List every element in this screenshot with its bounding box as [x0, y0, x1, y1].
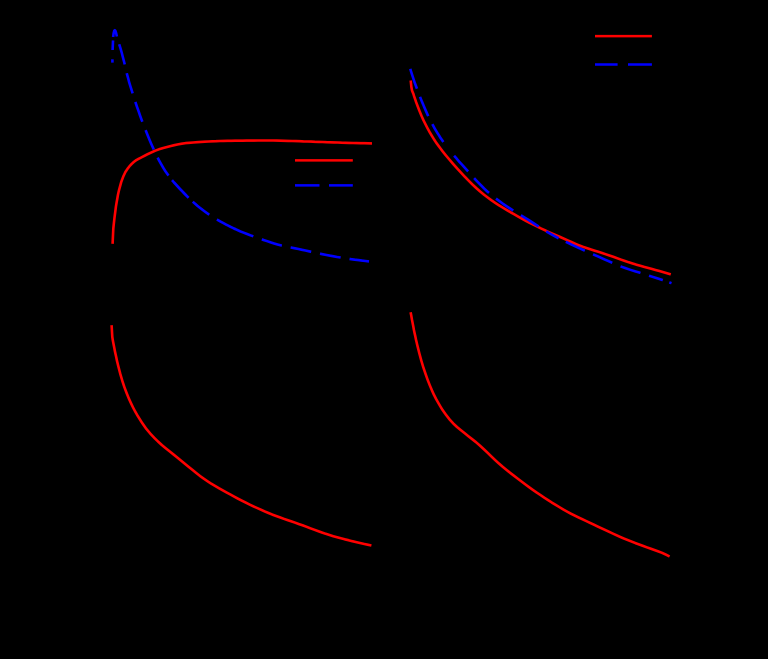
top-left subplot: blue dashed curve (descending branch, part 1) [119, 44, 188, 198]
top-left legend: red solid sample line [295, 159, 353, 162]
top-left blue curve: spike apex arc [113, 30, 117, 37]
top-left subplot: blue dashed curve (part 2) [172, 180, 236, 229]
top-left subplot: red solid curve [113, 141, 372, 244]
top-right subplot: red solid curve [411, 81, 671, 275]
top-right subplot: blue dashed curve (part 1) [410, 69, 420, 97]
bottom-left subplot: red solid curve [112, 325, 372, 545]
top-left blue curve: spike rising dash [111, 40, 114, 50]
top-right subplot: blue curve end dot [669, 281, 671, 284]
top-left blue curve: spike start dot [111, 59, 114, 62]
top-right subplot: blue dashed curve (part 2) [420, 97, 444, 143]
top-left subplot: blue dashed curve (part 3) [234, 228, 369, 261]
top-right subplot: blue dashed curve (part 3) [454, 156, 558, 239]
top-left legend: blue dashed sample line [295, 184, 320, 187]
top-right subplot: blue dashed curve (part 4) [566, 242, 663, 280]
bottom-right subplot: red solid curve [411, 312, 670, 556]
top-right legend: red solid sample line [595, 35, 652, 38]
top-right legend: blue dashed sample line [595, 63, 618, 66]
